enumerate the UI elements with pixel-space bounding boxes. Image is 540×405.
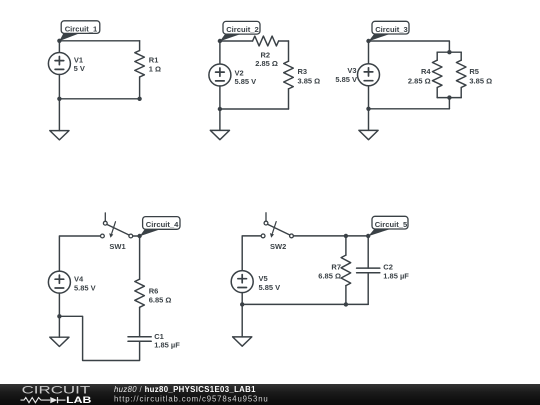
- svg-text:5.85 V: 5.85 V: [335, 75, 357, 84]
- flag label Circuit_4: [140, 217, 180, 237]
- switch SW1: [101, 213, 133, 238]
- wire (ground stem): [58, 99, 60, 131]
- ground (circuit 3): [359, 130, 378, 139]
- switch terminal (right): [129, 234, 133, 238]
- node (circuit 2 top): [218, 39, 222, 43]
- switch terminal (left): [261, 234, 265, 238]
- R3 label: [298, 67, 321, 85]
- svg-text:V5: V5: [259, 274, 268, 283]
- CircuitLab logo resistor squiggle: [21, 398, 51, 403]
- footer url text: [114, 394, 269, 403]
- svg-text:5 V: 5 V: [74, 64, 85, 73]
- svg-text:Circuit_4: Circuit_4: [146, 220, 179, 229]
- svg-text:SW1: SW1: [109, 242, 125, 251]
- node (circuit 3 bottom): [366, 107, 370, 111]
- svg-text:R3: R3: [298, 67, 308, 76]
- R4 label: [408, 67, 432, 85]
- svg-text:3.85 Ω: 3.85 Ω: [298, 77, 321, 86]
- node (circuit 4 bottom): [57, 314, 61, 318]
- wire (C2 bottom lead): [367, 273, 369, 305]
- ground (circuit 5): [233, 337, 252, 346]
- node (circuit 2 bottom): [218, 107, 222, 111]
- wire (V5 bottom lead): [241, 293, 243, 305]
- wire (circuit 1 bottom rail): [59, 98, 139, 100]
- wire (parallel bottom bar): [437, 97, 461, 99]
- svg-text:V3: V3: [347, 66, 356, 75]
- svg-text:2.85 Ω: 2.85 Ω: [255, 59, 278, 68]
- wire (switch left feed): [242, 236, 261, 271]
- node (circuit 3 top): [366, 39, 370, 43]
- svg-text:R1: R1: [149, 56, 159, 65]
- R2 label: [255, 50, 278, 67]
- svg-text:1.85 µF: 1.85 µF: [154, 340, 180, 349]
- svg-text:6.85 Ω: 6.85 Ω: [318, 272, 341, 281]
- svg-text:SW2: SW2: [270, 242, 286, 251]
- node (parallel bottom): [447, 95, 451, 99]
- svg-text:R6: R6: [149, 287, 159, 296]
- V4 label: [74, 274, 96, 292]
- voltage source V5: [231, 271, 253, 293]
- switch SW2: [261, 213, 293, 238]
- svg-text:2.85 Ω: 2.85 Ω: [408, 76, 431, 85]
- wire (ground stem): [241, 304, 243, 337]
- wire (circuit 5 bottom rail): [242, 303, 368, 305]
- wire (ground stem): [58, 316, 60, 337]
- wire (switch actuator stub): [104, 213, 106, 222]
- wire (switch actuator stub): [265, 213, 267, 222]
- voltage source V3: [358, 64, 380, 86]
- switch terminal (right): [290, 234, 294, 238]
- node (circuit 1 bottom right): [137, 97, 141, 101]
- wire (circuit 3 top rail): [369, 41, 450, 52]
- switch toggle arrow: [112, 222, 116, 234]
- resistor R2: [253, 36, 289, 46]
- wire (V1 bottom lead): [58, 75, 60, 99]
- R6 label: [149, 287, 172, 305]
- wire (switch to node): [133, 235, 140, 237]
- wire (switch to branches): [293, 235, 368, 237]
- wire (ground stem): [368, 109, 370, 131]
- SW1 label: [109, 242, 125, 251]
- voltage source V4: [48, 271, 70, 293]
- resistor R7: [341, 236, 351, 305]
- switch lever: [107, 224, 130, 235]
- node (circuit 5 bottom V5): [240, 302, 244, 306]
- flag label Circuit_1: [59, 21, 99, 41]
- flag label Circuit_3: [369, 21, 409, 41]
- CircuitLab logo wordmark LAB: [66, 395, 91, 405]
- voltage source V2: [209, 64, 231, 86]
- wire (switch left feed): [59, 236, 100, 271]
- R5 label: [469, 67, 492, 85]
- svg-text:R7: R7: [331, 263, 341, 272]
- svg-text:1.85 µF: 1.85 µF: [383, 272, 409, 281]
- wire (C2 top lead): [367, 236, 369, 268]
- C1 label: [154, 332, 180, 349]
- V5 label: [259, 274, 281, 292]
- resistor R5: [456, 52, 466, 97]
- svg-text:5.85 V: 5.85 V: [259, 283, 281, 292]
- V2 label: [235, 69, 257, 86]
- node (circuit 5 bottom R7): [344, 302, 348, 306]
- node (circuit 5 top R7): [344, 234, 348, 238]
- svg-text:Circuit_1: Circuit_1: [65, 24, 98, 33]
- switch pivot terminal: [103, 221, 107, 225]
- node (circuit 1 top): [57, 39, 61, 43]
- wire (V1 top lead): [58, 41, 60, 53]
- svg-text:R4: R4: [421, 67, 431, 76]
- svg-text:Circuit_3: Circuit_3: [375, 25, 408, 34]
- flag label Circuit_5: [368, 216, 408, 236]
- wire (circuit 3 bottom right): [448, 98, 450, 109]
- svg-text:R5: R5: [469, 67, 479, 76]
- wire (V2 bottom lead): [219, 86, 221, 109]
- node (circuit 5 top C2): [366, 234, 370, 238]
- voltage source V1: [48, 53, 70, 75]
- resistor R1: [135, 41, 145, 99]
- ground (circuit 2): [210, 130, 229, 139]
- ground (circuit 1): [50, 131, 69, 140]
- CircuitLab logo wordmark CIRCUIT: [22, 384, 91, 396]
- wire (ground stem): [219, 109, 221, 130]
- node (circuit 1 bottom left): [57, 97, 61, 101]
- svg-text:http://circuitlab.com/c9578s4u: http://circuitlab.com/c9578s4u953nu: [114, 394, 269, 403]
- wire (circuit 1 top rail): [59, 40, 139, 42]
- wire (V3 top lead): [368, 41, 370, 64]
- wire (circuit 2 right side): [288, 41, 290, 61]
- wire (parallel top bar): [437, 51, 461, 53]
- switch lever: [268, 224, 291, 235]
- switch pivot terminal: [264, 221, 268, 225]
- svg-text:3.85 Ω: 3.85 Ω: [469, 76, 492, 85]
- capacitor C2: [357, 268, 380, 273]
- wire (circuit 2 bottom rail): [220, 108, 289, 110]
- flag label Circuit_2: [220, 21, 260, 41]
- svg-text:Circuit_2: Circuit_2: [226, 25, 259, 34]
- resistor R4: [432, 52, 442, 97]
- R7 label: [318, 263, 341, 281]
- svg-text:V4: V4: [74, 274, 84, 283]
- svg-text:LAB: LAB: [66, 395, 91, 405]
- wire (V2 top lead): [219, 41, 221, 64]
- C2 label: [383, 263, 409, 281]
- V3 label: [335, 66, 357, 84]
- resistor R6: [135, 236, 145, 337]
- svg-text:5.85 V: 5.85 V: [235, 77, 257, 86]
- svg-text:C2: C2: [383, 263, 393, 272]
- switch terminal (left): [101, 234, 105, 238]
- footer bar: [0, 384, 540, 405]
- svg-text:1 Ω: 1 Ω: [149, 65, 161, 74]
- ground (circuit 4): [50, 337, 69, 346]
- wire (circuit 2 top left): [220, 40, 253, 42]
- CircuitLab logo diode: [50, 397, 65, 403]
- wire (V4 bottom lead): [58, 293, 60, 316]
- svg-text:6.85 Ω: 6.85 Ω: [149, 295, 172, 304]
- V1 label: [74, 56, 85, 73]
- footer title text: [114, 385, 256, 394]
- switch toggle arrow: [272, 222, 276, 234]
- node (parallel top): [447, 50, 451, 54]
- svg-text:Circuit_5: Circuit_5: [375, 220, 408, 229]
- node (circuit 4 switch node): [137, 234, 141, 238]
- svg-text:huz80 / huz80_PHYSICS1E03_LAB1: huz80 / huz80_PHYSICS1E03_LAB1: [114, 385, 256, 394]
- wire (circuit 3 bottom rail): [369, 108, 450, 110]
- wire (C1 to bottom path): [59, 316, 139, 360]
- wire (V3 bottom lead): [368, 86, 370, 109]
- resistor R3: [284, 61, 294, 109]
- SW2 label: [270, 242, 286, 251]
- capacitor C1: [128, 337, 151, 342]
- svg-text:5.85 V: 5.85 V: [74, 283, 96, 292]
- R1 label: [149, 56, 161, 74]
